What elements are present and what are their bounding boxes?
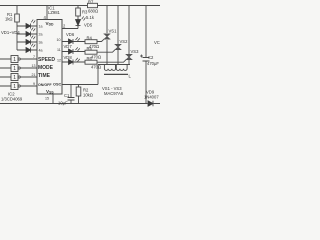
svg-text:1: 1 (13, 84, 16, 90)
svg-text:470μF: 470μF (147, 61, 159, 66)
svg-text:VDD: VDD (46, 21, 55, 27)
svg-text:R6: R6 (87, 56, 93, 61)
svg-text:VD8: VD8 (64, 55, 73, 60)
svg-text:11: 11 (57, 48, 61, 52)
svg-text:SPEED: SPEED (38, 57, 55, 63)
svg-text:2a: 2a (39, 33, 43, 37)
svg-text:10μF: 10μF (58, 101, 68, 106)
svg-text:VD5: VD5 (84, 23, 93, 28)
svg-text:680Ω: 680Ω (88, 9, 98, 14)
svg-text:MAC97A6: MAC97A6 (104, 91, 124, 96)
svg-text:9: 9 (33, 82, 35, 86)
svg-text:1: 1 (13, 75, 16, 81)
svg-text:C2: C2 (148, 55, 154, 60)
svg-text:VS3: VS3 (131, 49, 140, 54)
svg-text:1a: 1a (39, 25, 43, 29)
svg-text:R4: R4 (87, 36, 93, 41)
svg-text:1: 1 (13, 57, 16, 63)
svg-text:1/3CD4069: 1/3CD4069 (1, 97, 23, 102)
svg-text:R3: R3 (82, 10, 88, 15)
svg-text:VD7: VD7 (64, 44, 73, 49)
svg-text:VD6: VD6 (66, 32, 75, 37)
svg-text:1: 1 (13, 66, 16, 72)
svg-text:MODE: MODE (38, 65, 54, 71)
svg-text:R7: R7 (88, 0, 94, 5)
svg-text:15: 15 (45, 97, 49, 101)
svg-text:3a: 3a (39, 41, 43, 45)
svg-text:R5: R5 (87, 46, 93, 51)
svg-text:13: 13 (32, 64, 36, 68)
svg-text:LZ981: LZ981 (48, 10, 61, 15)
svg-text:12: 12 (57, 59, 61, 63)
svg-text:5.1k: 5.1k (86, 15, 95, 20)
svg-text:VS1: VS1 (109, 29, 118, 34)
svg-text:VS2: VS2 (120, 39, 129, 44)
svg-text:1N4007: 1N4007 (144, 95, 159, 100)
svg-text:21: 21 (32, 73, 36, 77)
svg-text:470Ω: 470Ω (91, 55, 101, 60)
svg-text:10: 10 (57, 38, 61, 42)
svg-text:10kΩ: 10kΩ (83, 93, 93, 98)
svg-text:TIME: TIME (38, 73, 51, 79)
svg-text:7: 7 (33, 55, 35, 59)
svg-text:OSC: OSC (53, 83, 61, 87)
svg-text:ON/OFF: ON/OFF (38, 83, 52, 87)
svg-text:1kΩ: 1kΩ (5, 17, 13, 22)
svg-text:C1: C1 (64, 93, 70, 98)
svg-text:VD1~VD4: VD1~VD4 (1, 30, 20, 35)
svg-text:VSS: VSS (46, 89, 54, 95)
svg-text:4a: 4a (39, 49, 43, 53)
svg-text:VC: VC (154, 40, 160, 45)
svg-text:470Ω: 470Ω (91, 65, 101, 70)
